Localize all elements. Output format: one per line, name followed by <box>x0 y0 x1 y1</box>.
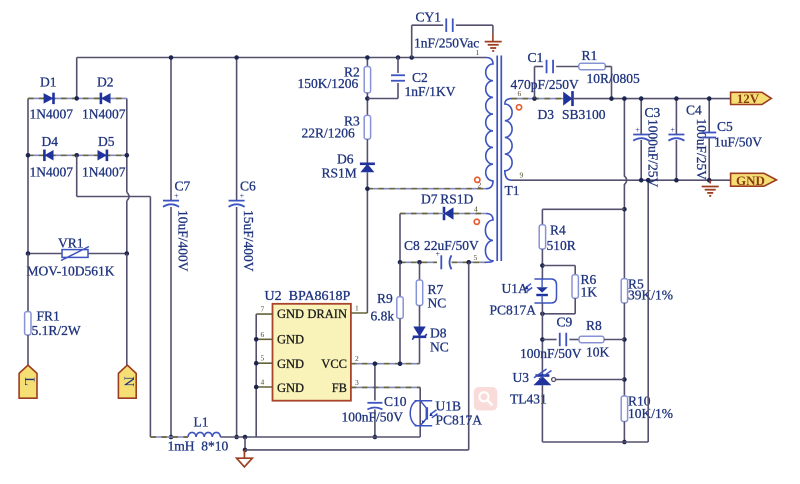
wire N right vertical upper <box>126 98 128 192</box>
svg-text:C7: C7 <box>175 179 191 194</box>
svg-text:VCC: VCC <box>321 357 347 371</box>
svg-text:1uF/50V: 1uF/50V <box>714 135 762 150</box>
wire bottom bus left <box>150 436 188 438</box>
svg-text:NC: NC <box>428 296 447 311</box>
svg-text:GND: GND <box>277 333 304 347</box>
wire primary return vertical <box>149 197 151 438</box>
capacitor C6 plates <box>229 192 245 207</box>
svg-text:1K: 1K <box>581 285 598 300</box>
resistor R10 <box>621 396 627 422</box>
junction R1 branch <box>609 96 614 101</box>
wire CY1 left vertical <box>411 25 413 57</box>
resistor R6 <box>572 275 578 299</box>
wire C10 upper lead <box>374 364 376 401</box>
svg-text:D3: D3 <box>538 107 555 122</box>
junction C10 top <box>373 361 378 366</box>
diode D1 <box>44 93 54 105</box>
resistor R9 <box>397 297 403 319</box>
svg-text:GND: GND <box>277 381 304 395</box>
svg-text:15uF/400V: 15uF/400V <box>241 210 256 272</box>
junction bridge bottom-center <box>74 153 79 158</box>
wire 12V rail <box>573 98 731 100</box>
capacitor C7 plates <box>163 192 179 207</box>
svg-text:1nF/1KV: 1nF/1KV <box>405 84 456 99</box>
wire R5 column upper <box>623 99 625 177</box>
svg-text:1N4007: 1N4007 <box>82 164 126 179</box>
junction ground stub bottom <box>243 448 248 453</box>
junction C4 bottom <box>674 178 679 183</box>
wire FR1 to L terminal <box>27 335 29 365</box>
terminal GND <box>731 173 777 188</box>
wire R9 upper lead <box>399 262 401 297</box>
capacitor C3 column lower <box>640 140 642 180</box>
wire bridge top-center to bus <box>76 58 78 99</box>
wire feedback bottom bus <box>542 441 648 443</box>
wire R4 upper lead <box>541 209 543 225</box>
junction C3 bottom <box>639 178 644 183</box>
junction aux return <box>466 260 471 265</box>
capacitor CY1 plates <box>446 18 453 32</box>
svg-text:100nF/50V: 100nF/50V <box>520 346 582 361</box>
pin stub GND1 <box>256 313 272 315</box>
junction GND2 stub <box>254 337 259 342</box>
diode D5 <box>98 150 107 162</box>
wire R4 top row <box>542 208 624 210</box>
svg-text:N: N <box>120 376 136 387</box>
zoom watermark icon <box>474 387 498 411</box>
svg-text:C8: C8 <box>404 238 420 253</box>
capacitor C7 column upper <box>170 58 172 201</box>
wire D7 corner down <box>399 214 401 263</box>
wire FB pin row <box>351 386 420 388</box>
wire L column to FR1 <box>27 254 29 312</box>
node DC+ top bus wire <box>77 57 486 59</box>
svg-text:T1: T1 <box>505 183 520 198</box>
wire R7 upper lead <box>419 262 421 280</box>
svg-text:3: 3 <box>355 378 359 387</box>
svg-text:1mH 8*10: 1mH 8*10 <box>168 439 229 454</box>
svg-text:D2: D2 <box>97 75 114 90</box>
wire CY1 ground drop <box>492 25 494 34</box>
svg-text:10K: 10K <box>586 345 610 360</box>
junction bridge right bottom <box>125 153 130 158</box>
svg-text:C4: C4 <box>686 103 702 118</box>
svg-text:U3: U3 <box>513 370 530 385</box>
wire R3 to D6 <box>366 139 368 163</box>
svg-text:12V: 12V <box>737 91 760 106</box>
wire feedback ground column <box>647 180 649 442</box>
junction C1 branch <box>532 96 537 101</box>
svg-text:RS1M: RS1M <box>322 166 357 181</box>
junction C6 bottom <box>234 435 239 440</box>
svg-text:+: + <box>635 126 640 135</box>
junction U3 ref tee <box>622 377 627 382</box>
capacitor C6 column lower <box>236 207 238 437</box>
svg-text:C5: C5 <box>717 119 733 134</box>
svg-text:100uF/25V: 100uF/25V <box>694 119 709 181</box>
svg-text:5: 5 <box>261 354 265 363</box>
capacitor C2 upper lead <box>397 58 399 74</box>
pin stub GND3 <box>256 362 272 364</box>
capacitor C2 lower lead <box>397 83 399 99</box>
junction C10 bottom <box>373 435 378 440</box>
capacitor C5 column upper <box>708 99 710 133</box>
junction bridge left bottom <box>26 153 31 158</box>
svg-text:DRAIN: DRAIN <box>307 307 347 321</box>
svg-text:R8: R8 <box>586 318 602 333</box>
wire drain rail to primary <box>367 188 486 190</box>
wire drain column <box>366 189 368 313</box>
polarity dot secondary <box>516 105 521 110</box>
wire VCC node row <box>400 261 437 263</box>
wire bottom bus mid <box>220 436 420 438</box>
wire C9 to R8 <box>569 339 579 341</box>
transformer T1 auxiliary winding <box>485 214 493 263</box>
svg-text:22uF/50V: 22uF/50V <box>424 238 479 253</box>
wire R1 right lead <box>605 66 611 68</box>
junction U1A anode box <box>540 263 545 268</box>
varistor VR1 <box>61 247 89 261</box>
svg-text:U2 BPA8618P: U2 BPA8618P <box>265 289 351 304</box>
wire D7 to VCC corner <box>400 213 444 215</box>
svg-text:SB3100: SB3100 <box>562 107 606 122</box>
junction ground stub top <box>243 435 248 440</box>
svg-text:2: 2 <box>355 354 359 363</box>
svg-text:R4: R4 <box>550 222 566 237</box>
svg-text:C9: C9 <box>557 315 573 330</box>
wire chip GND column <box>255 314 257 437</box>
junction GND4 stub <box>254 385 259 390</box>
svg-text:D6: D6 <box>337 152 354 167</box>
svg-text:VR1: VR1 <box>58 236 84 251</box>
svg-text:CY1: CY1 <box>416 10 442 25</box>
svg-text:GND: GND <box>277 307 304 321</box>
wire R2 to R3 <box>366 93 368 116</box>
wire U1A box bottom <box>542 313 575 315</box>
capacitor C8 <box>436 249 452 269</box>
resistor R8 <box>579 336 604 342</box>
svg-text:5: 5 <box>474 253 478 262</box>
capacitor C6 column upper <box>236 58 238 201</box>
svg-text:4: 4 <box>261 378 265 387</box>
resistor R1 <box>579 63 606 69</box>
diode D4 <box>44 150 53 162</box>
wire bus to R2 <box>366 58 368 67</box>
wire aux top to D7 <box>454 213 487 215</box>
wire D8 lower lead <box>419 338 421 364</box>
wire C1 left lead <box>535 66 544 68</box>
svg-text:U1A: U1A <box>502 281 528 296</box>
wire jump over ground rail <box>624 176 626 184</box>
wire U3 anode down <box>541 385 543 442</box>
wire R1 branch down <box>611 67 613 99</box>
polarity dot auxiliary <box>474 219 479 224</box>
wire N right vertical lower <box>126 201 128 254</box>
junction R7 top <box>417 260 422 265</box>
wire AC-L left vertical <box>27 98 29 253</box>
svg-text:R1: R1 <box>582 48 598 63</box>
junction C2 top <box>396 55 401 60</box>
svg-text:1N4007: 1N4007 <box>30 107 74 122</box>
pin stub GND4 <box>256 386 272 388</box>
wire CY1 top right <box>456 24 493 26</box>
ground earth (output) <box>702 187 719 196</box>
junction drain node <box>365 186 370 191</box>
svg-text:NC: NC <box>430 340 449 355</box>
wire CY1 ground stem <box>492 34 494 41</box>
diode D3 <box>563 91 572 106</box>
junction C5 bottom <box>707 178 712 183</box>
svg-text:FR1: FR1 <box>37 309 60 324</box>
wire C9 left lead <box>542 339 556 341</box>
terminal N <box>118 365 136 398</box>
svg-text:470pF/250V: 470pF/250V <box>511 77 580 92</box>
wire R9 lower lead <box>399 319 401 364</box>
transformer T1 primary winding <box>486 58 493 189</box>
svg-text:C3: C3 <box>645 105 661 120</box>
svg-text:C6: C6 <box>240 179 256 194</box>
diode D8 zener <box>413 327 427 337</box>
capacitor C4 column upper <box>675 99 677 135</box>
svg-text:FB: FB <box>332 381 347 395</box>
junction R5 top <box>622 96 627 101</box>
svg-text:5.1R/2W: 5.1R/2W <box>32 323 81 338</box>
svg-text:L1: L1 <box>194 415 209 430</box>
junction U1A cathode box <box>540 312 545 317</box>
wire U3 ref lead <box>556 379 624 381</box>
wire N column to terminal <box>126 254 128 366</box>
wire VR1 row <box>28 253 127 255</box>
terminal 12V <box>731 91 772 106</box>
junction R9 bottom <box>398 361 403 366</box>
resistor FR1 <box>25 312 31 335</box>
junction VR1 left <box>26 251 31 256</box>
wire U1A cathode down <box>541 303 543 376</box>
wire R7 to D8 <box>419 306 421 327</box>
diode D6 <box>360 164 375 173</box>
svg-text:1N4007: 1N4007 <box>30 164 74 179</box>
pin stub DRAIN <box>351 312 368 314</box>
junction R2-R3-C2 node <box>365 96 370 101</box>
svg-text:GND: GND <box>736 173 765 188</box>
wire C1 branch up <box>534 67 536 99</box>
capacitor C3 plates <box>633 126 649 141</box>
wire R8 right lead <box>604 339 624 341</box>
wire aux return down <box>468 262 470 450</box>
wire R5 column mid <box>623 184 625 279</box>
op-amp U2 BPA8618P body <box>273 304 351 401</box>
resistor R3 <box>364 115 370 139</box>
junction C6 top <box>234 55 239 60</box>
junction C3 top <box>639 96 644 101</box>
svg-text:10uF/400V: 10uF/400V <box>176 210 191 272</box>
svg-text:TL431: TL431 <box>510 391 547 406</box>
opto-LED U1A PC817A <box>524 279 556 303</box>
capacitor C5 column lower <box>708 138 710 181</box>
diode D2 <box>101 93 111 105</box>
junction VCC-R9-D7 <box>398 260 403 265</box>
wire R4 to U1A <box>541 249 543 279</box>
junction FB divider <box>622 337 627 342</box>
wire R5 to R10 <box>623 303 625 396</box>
junction GND3 stub <box>254 361 259 366</box>
shunt regulator U3 TL431 <box>533 369 551 385</box>
svg-text:C1: C1 <box>528 50 544 65</box>
wire output ground stem <box>709 180 711 183</box>
wire bridge top row <box>28 97 127 99</box>
svg-text:D4: D4 <box>42 134 59 149</box>
polarity dot primary <box>475 177 480 182</box>
junction VR1 right <box>125 251 130 256</box>
svg-text:L: L <box>21 377 37 386</box>
svg-text:1: 1 <box>355 304 359 313</box>
wire C2 bottom link <box>367 98 398 100</box>
wire C10 lower lead <box>374 410 376 438</box>
wire R6 upper lead <box>574 266 576 275</box>
junction C4 top <box>674 96 679 101</box>
junction C7 top <box>169 55 174 60</box>
junction CY1 branch <box>409 55 414 60</box>
wire C1 to R1 <box>556 66 579 68</box>
transistor U1B PC817A <box>410 401 437 426</box>
wire bridge bottom-center down <box>76 155 78 196</box>
wire lower ground bus <box>245 449 469 451</box>
junction bridge top-center <box>74 96 79 101</box>
svg-text:GND: GND <box>277 357 304 371</box>
svg-text:U1B: U1B <box>436 399 462 414</box>
wire R6 lower lead <box>574 298 576 314</box>
svg-text:PC817A: PC817A <box>490 302 537 317</box>
wire secondary bottom rail <box>512 179 731 181</box>
svg-text:R9: R9 <box>377 291 393 306</box>
junction feedback ground top <box>646 178 651 183</box>
wire bridge bottom row <box>28 154 127 156</box>
resistor R5 <box>621 279 627 303</box>
resistor R7 <box>416 280 422 306</box>
capacitor C9 plates <box>560 333 567 347</box>
transformer T1 secondary winding <box>505 99 512 181</box>
resistor R4 <box>539 225 545 249</box>
svg-text:D5: D5 <box>98 134 115 149</box>
junction C9 row left <box>540 337 545 342</box>
svg-text:22R/1206: 22R/1206 <box>302 126 356 141</box>
wire U1A box top <box>542 265 575 267</box>
svg-text:4: 4 <box>474 205 478 214</box>
svg-text:1N4007: 1N4007 <box>82 107 126 122</box>
capacitor C2 plates <box>391 75 405 81</box>
wire CY1 top left <box>412 24 444 26</box>
wire jump over N column <box>127 192 129 200</box>
pin stub GND2 <box>256 338 272 340</box>
inductor L1 <box>188 432 220 437</box>
capacitor C7 column lower <box>170 207 172 437</box>
wire secondary top rail to D3 <box>512 98 564 100</box>
svg-text:150K/1206: 150K/1206 <box>298 76 359 91</box>
capacitor C5 plates <box>702 133 716 138</box>
svg-text:1nF/250Vac: 1nF/250Vac <box>414 35 479 50</box>
svg-text:C10: C10 <box>384 394 407 409</box>
svg-text:1: 1 <box>476 48 480 57</box>
svg-text:39K/1%: 39K/1% <box>628 288 673 303</box>
svg-text:10K/1%: 10K/1% <box>628 406 673 421</box>
svg-text:100nF/50V: 100nF/50V <box>342 410 404 425</box>
capacitor C10 plates <box>367 403 382 410</box>
wire VCC pin row <box>351 363 420 365</box>
junction R2 top <box>365 55 370 60</box>
ground earth (CY1) <box>485 42 502 51</box>
junction R4 tee <box>622 207 627 212</box>
svg-text:D8: D8 <box>430 326 447 341</box>
capacitor C1 plates <box>547 60 554 74</box>
wire D6 to drain node <box>366 172 368 188</box>
capacitor C4 plates <box>668 126 684 141</box>
svg-text:C2: C2 <box>412 70 428 85</box>
svg-text:510R: 510R <box>547 238 576 253</box>
svg-text:D1: D1 <box>40 75 57 90</box>
wire R10 bottom lead <box>623 422 625 443</box>
wire C8 to aux return <box>452 261 487 263</box>
terminal L <box>19 365 37 398</box>
diode D7 <box>444 207 454 221</box>
resistor R2 <box>364 67 370 93</box>
wire ground stub <box>244 437 246 450</box>
junction R10 bottom <box>622 440 627 445</box>
svg-text:MOV-10D561K: MOV-10D561K <box>27 263 115 278</box>
svg-text:D7 RS1D: D7 RS1D <box>421 192 473 207</box>
transformer T1 core <box>497 56 501 262</box>
svg-text:10R/0805: 10R/0805 <box>587 71 641 86</box>
svg-text:1000uF/25V: 1000uF/25V <box>646 119 661 188</box>
capacitor C4 column lower <box>675 140 677 180</box>
junction C7 bottom <box>169 435 174 440</box>
svg-text:9: 9 <box>520 171 524 180</box>
wire primary return horizontal <box>77 196 151 198</box>
ground power symbol <box>237 450 253 467</box>
svg-text:6.8k: 6.8k <box>371 309 395 324</box>
svg-text:PC817A: PC817A <box>436 413 483 428</box>
wire FB corner down <box>419 387 421 437</box>
svg-text:+: + <box>670 126 675 135</box>
capacitor C3 column upper <box>640 99 642 135</box>
junction C5 top <box>707 96 712 101</box>
svg-text:7: 7 <box>261 305 265 314</box>
svg-text:6: 6 <box>261 330 265 339</box>
